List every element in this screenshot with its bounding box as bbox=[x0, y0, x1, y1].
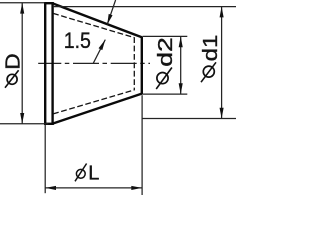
leader line B (from centerline) toward inner taper bbox=[93, 40, 105, 64]
dimension line: phi-L horizontal bbox=[45, 187, 142, 189]
part outline: flange bottom edge bbox=[44, 123, 54, 125]
part outline: cone top edge bbox=[53, 3, 142, 37]
part outline: cone bottom edge bbox=[53, 94, 142, 124]
hidden line: inner taper top (dashed) bbox=[53, 13, 134, 37]
arrowhead: phi-D top bbox=[20, 3, 24, 14]
arrowhead: phi-d1 top bbox=[220, 7, 224, 18]
leader line A (from above) to cone surface bbox=[107, 0, 115, 25]
arrowhead: phi-d1 bottom bbox=[220, 108, 224, 119]
arrowhead: phi-d2 top bbox=[179, 36, 183, 47]
extension line: phi-D top (left) bbox=[0, 2, 45, 4]
extension line: phi-d1 bottom bbox=[142, 118, 236, 120]
dimension line: phi-d1 vertical bbox=[221, 7, 223, 119]
arrowhead: leader A tip on cone edge bbox=[107, 14, 112, 25]
label phi-D: diameter symbol circle bbox=[7, 74, 17, 84]
part outline: flange right edge (cone start) bbox=[51, 2, 53, 125]
svg-text:1.5: 1.5 bbox=[64, 28, 91, 53]
arrowhead: phi-L left bbox=[45, 186, 56, 190]
part outline: flange top edge bbox=[44, 2, 54, 4]
extension line: phi-d2 bottom bbox=[143, 93, 188, 95]
svg-text:L: L bbox=[88, 163, 99, 185]
arrowhead: phi-D bottom bbox=[20, 113, 24, 124]
label phi-L: diameter symbol circle bbox=[76, 169, 85, 178]
extension line: phi-D bottom (left) bbox=[0, 123, 48, 125]
arrowhead: leader B tip bbox=[99, 40, 106, 51]
label phi-d1: diameter symbol circle bbox=[203, 66, 214, 77]
label phi-L: diameter symbol slash bbox=[75, 164, 87, 182]
label phi-D: diameter symbol slash bbox=[5, 70, 19, 88]
svg-text:d2: d2 bbox=[155, 37, 177, 67]
dimension line: phi-D vertical bbox=[21, 3, 23, 124]
label phi-d1: diameter symbol slash bbox=[201, 62, 216, 82]
center line (part axis, dash-dot) bbox=[38, 62, 150, 64]
part outline: flange left edge bbox=[44, 2, 46, 125]
arrowhead: phi-L right bbox=[131, 186, 142, 190]
arrowhead: phi-d2 bottom bbox=[179, 83, 183, 94]
hidden line: inner taper bottom (dashed) bbox=[53, 90, 134, 114]
svg-text:d1: d1 bbox=[200, 35, 222, 62]
extension line: phi-d1 top bbox=[53, 6, 236, 8]
extension line: phi-L right (below cone end) bbox=[141, 95, 143, 195]
extension line: phi-d2 top bbox=[143, 35, 188, 37]
label phi-d2: diameter symbol circle bbox=[157, 73, 168, 84]
hidden line: inner hole end vertical (dashed) bbox=[133, 37, 135, 90]
dimension line: phi-d2 vertical bbox=[180, 36, 182, 94]
label phi-d2: diameter symbol slash bbox=[156, 68, 172, 90]
extension line: phi-L left (below flange) bbox=[44, 125, 46, 193]
svg-text:D: D bbox=[2, 53, 24, 69]
part outline: cone right end face bbox=[141, 37, 143, 95]
